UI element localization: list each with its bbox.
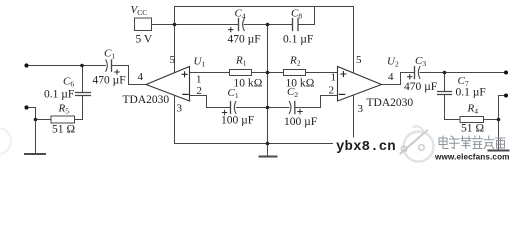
svg-text:2: 2 (329, 85, 335, 97)
wire: input terminal A to junction (27, 65, 83, 67)
capacitor C8 (0.1uF decoupling) (293, 19, 299, 31)
svg-text:TDA2030: TDA2030 (367, 97, 414, 109)
svg-text:470 µF: 470 µF (93, 75, 126, 87)
wire: C8 to riser segment (298, 24, 315, 26)
wire: C6 upper lead (82, 66, 84, 93)
wire: Vcc row from supply box to C4 (152, 24, 239, 26)
svg-text:R1: R1 (235, 55, 247, 68)
wire: output junction to terminal (445, 72, 507, 74)
resistor R5 (51 ohm) (51, 116, 75, 123)
svg-text:C6: C6 (63, 76, 74, 89)
svg-text:1: 1 (331, 72, 337, 84)
svg-text:VCC: VCC (131, 4, 148, 17)
wire: R5 left lead (36, 119, 52, 121)
resistor R1 (10k) (230, 70, 252, 76)
node: output terminal top (504, 71, 508, 75)
junction: Vcc decoupling node (173, 23, 177, 27)
junction: R4/ground column node (497, 118, 501, 122)
watermark: elecfans pen logo (401, 126, 434, 161)
wire: C1 left lead (83, 65, 106, 67)
capacitor C3 (470uF output coupling) (408, 67, 420, 80)
watermark: CJK characters (439, 136, 505, 149)
svg-text:3: 3 (177, 103, 183, 115)
capacitor C1b (100uF feedback) (222, 102, 236, 115)
wire: C4 to C8 segment (244, 24, 292, 26)
svg-text:470 µF: 470 µF (228, 34, 261, 46)
wire: R1 to R2 mid segment (252, 72, 284, 74)
resistor R4 (51 ohm) (460, 117, 484, 123)
svg-text:100 µF: 100 µF (284, 116, 317, 128)
svg-text:5: 5 (170, 54, 176, 66)
svg-text:4: 4 (138, 71, 144, 83)
svg-text:TDA2030: TDA2030 (123, 94, 170, 106)
capacitor C1 (470uF input coupling) (106, 60, 119, 74)
svg-text:470 µF: 470 µF (404, 81, 437, 93)
wire: C7 upper lead (444, 73, 446, 92)
svg-text:51 Ω: 51 Ω (52, 124, 75, 136)
svg-text:www.elecfans.com: www.elecfans.com (434, 153, 510, 162)
wire: C1 right lead to U1 output pin 4 (112, 66, 146, 85)
node: output terminal bottom (504, 94, 508, 98)
node: input terminal B (24, 105, 28, 109)
watermark: faint circle at left edge (0, 128, 11, 154)
svg-text:C1: C1 (104, 48, 115, 61)
svg-text:1: 1 (196, 74, 202, 86)
wire: terminal B elbow to ground (27, 108, 36, 154)
wire: C8 riser to top rail (314, 7, 316, 25)
wire: U2 pin3 ground lead (353, 95, 355, 144)
wire: R2 to U2 pin1 (306, 72, 338, 74)
capacitor C2b (100uF feedback) (289, 102, 302, 114)
svg-text:C3: C3 (415, 55, 426, 68)
svg-text:ybx8.cn: ybx8.cn (336, 139, 396, 155)
svg-text:C8: C8 (291, 8, 302, 21)
junction: ground rail node (266, 142, 270, 146)
wire: U1 pin2 elbow to C1b (190, 96, 231, 108)
svg-text:R4: R4 (467, 103, 479, 116)
svg-text:10 kΩ: 10 kΩ (234, 77, 263, 89)
wire: right terminal elbow and ground column (499, 96, 507, 150)
wire: U1 pin5 supply riser (174, 7, 176, 73)
wire: +Vcc top rail (175, 6, 354, 8)
svg-text:5: 5 (356, 54, 362, 66)
svg-text:R2: R2 (289, 55, 301, 68)
wire: U1 pin1 to R1 (190, 72, 230, 74)
Vcc supply source box (135, 18, 152, 31)
ground symbol: center (260, 144, 277, 157)
svg-text:0.1 µF: 0.1 µF (456, 87, 486, 99)
junction: C6/C1 node (80, 64, 84, 68)
svg-text:51 Ω: 51 Ω (461, 123, 484, 135)
wire: center ground column (267, 25, 269, 144)
wire: C3 to output junction (420, 72, 445, 74)
junction: R1/R2 node (266, 71, 270, 75)
svg-text:R5: R5 (58, 103, 70, 116)
svg-text:3: 3 (358, 103, 364, 115)
wire: C1b to C2b mid segment (236, 107, 289, 109)
watermark: white patch under ybx8.cn (333, 138, 400, 154)
svg-text:C4: C4 (235, 8, 246, 21)
wire: R5 right lead (75, 119, 83, 121)
svg-text:U1: U1 (194, 56, 206, 69)
svg-text:2: 2 (197, 85, 203, 97)
ground symbol: right (489, 150, 509, 152)
svg-text:5 V: 5 V (136, 34, 153, 46)
capacitor C7 (0.1uF) (438, 92, 452, 95)
wire: C6 lower lead (82, 96, 84, 120)
svg-text:0.1 µF: 0.1 µF (44, 89, 74, 101)
wire: bottom ground rail (175, 143, 354, 145)
op-amp U1 TDA2030 triangle with input polarity marks (146, 67, 190, 102)
wire: C2b to U2 pin2 elbow (295, 96, 338, 108)
resistor R2 (10k) (284, 70, 306, 76)
capacitor C6 (0.1uF) (76, 93, 91, 96)
svg-text:0.1 µF: 0.1 µF (283, 34, 313, 46)
wire: C7 lower lead to R4 (445, 95, 461, 120)
wire: U2 output pin 4 elbow to C3 (382, 73, 415, 85)
ground symbol: left (25, 153, 45, 155)
svg-text:4: 4 (388, 71, 394, 83)
op-amp U2 TDA2030 triangle with input polarity marks (338, 67, 382, 102)
junction: C4/C8 center node (266, 23, 270, 27)
junction: C1b/C2b node (266, 106, 270, 110)
wire: R4 right lead (484, 119, 499, 121)
junction: R5/ground column node (34, 118, 38, 122)
svg-text:U2: U2 (387, 56, 399, 69)
capacitor C4 (470uF decoupling) (229, 19, 245, 32)
wire: U1 pin3 ground lead (174, 95, 176, 143)
wire: U2 pin5 supply riser (353, 7, 355, 74)
junction: output/C7 node (443, 71, 447, 75)
node: input terminal A (24, 63, 28, 67)
svg-text:100 µF: 100 µF (221, 115, 254, 127)
